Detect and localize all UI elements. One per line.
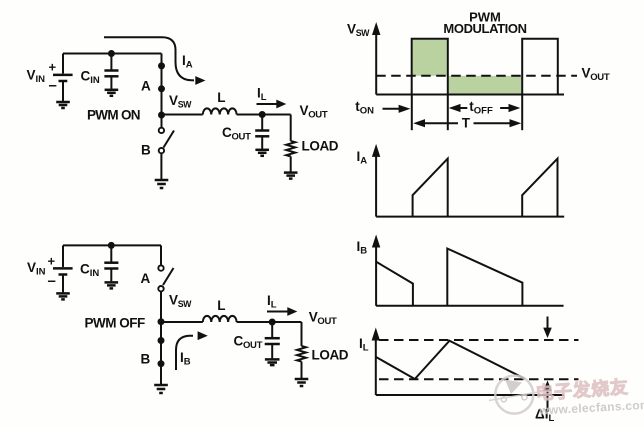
ground below COUT bbox=[255, 150, 269, 156]
svg-text:A: A bbox=[141, 271, 151, 286]
IB segment 1 bbox=[376, 262, 413, 306]
ground below COUT bbox=[265, 359, 280, 365]
arrowhead IL bbox=[287, 307, 297, 316]
svg-text:MODULATION: MODULATION bbox=[443, 21, 526, 36]
node VSW junction dot bbox=[158, 112, 165, 119]
axis IB vertical bbox=[375, 244, 377, 306]
ground below VIN battery bbox=[56, 293, 70, 299]
axis IL vertical bbox=[375, 337, 377, 395]
ground below LOAD bbox=[284, 173, 298, 179]
axis IA vertical bbox=[375, 153, 377, 217]
arrowhead axis IL bbox=[372, 328, 380, 341]
dashed VOUT level line bbox=[376, 75, 577, 77]
green fill tON (above VOUT level) bbox=[413, 40, 447, 76]
ground below switch B bbox=[154, 385, 168, 393]
arrowhead tOFF right bbox=[509, 104, 521, 112]
watermark logo small circle left bbox=[501, 397, 506, 402]
current IA curved arrow bbox=[104, 37, 194, 80]
svg-text:+: + bbox=[49, 60, 57, 75]
switch B open: lower circle bbox=[159, 148, 164, 153]
arrow tOFF right shaft bbox=[500, 107, 509, 109]
svg-text:PWM OFF: PWM OFF bbox=[85, 316, 145, 331]
svg-text:LOAD: LOAD bbox=[312, 348, 349, 363]
svg-text:LOAD: LOAD bbox=[302, 139, 339, 154]
wire LOAD to ground bbox=[290, 156, 292, 171]
switch B open: upper circle bbox=[159, 128, 164, 133]
ground below switch B bbox=[155, 180, 169, 188]
wire VSW to inductor bbox=[162, 114, 203, 116]
axis IL baseline bbox=[376, 394, 564, 396]
wire switch branch vertical bbox=[161, 54, 163, 128]
IL ripple trace bbox=[376, 341, 525, 379]
watermark logo small circle right bbox=[522, 395, 527, 400]
arrow T left shaft bbox=[424, 122, 458, 124]
dashed lower ripple bound bbox=[379, 378, 579, 380]
node VSW junction dot bbox=[158, 318, 165, 325]
wire output corner down to LOAD bbox=[290, 115, 292, 141]
switch A terminal dot lower (closed) bbox=[158, 85, 165, 92]
switch A blade bbox=[163, 268, 174, 285]
resistor LOAD bbox=[286, 141, 295, 157]
ground below VIN battery bbox=[56, 102, 70, 108]
axis VSW vertical bbox=[375, 31, 377, 95]
svg-text:T: T bbox=[462, 116, 471, 131]
arrowhead down bbox=[543, 328, 552, 338]
arrowhead up bbox=[543, 381, 552, 391]
IA sawtooth 2 bbox=[522, 159, 557, 217]
arrowhead tOFF left bbox=[449, 104, 461, 112]
wire inductor to output bbox=[237, 321, 302, 323]
arrow tOFF left shaft bbox=[460, 107, 468, 109]
current IL arrow bbox=[257, 103, 279, 105]
svg-text:+: + bbox=[48, 254, 56, 269]
wire VSW to inductor bbox=[161, 321, 203, 323]
guide line tick 1 bbox=[411, 95, 413, 131]
svg-text:L: L bbox=[217, 90, 225, 105]
inductor L bbox=[203, 108, 237, 114]
green fill tOFF (below VOUT level) bbox=[449, 76, 521, 94]
capacitor COUT bbox=[265, 322, 280, 358]
arrowhead IL bbox=[276, 100, 286, 109]
ground below LOAD bbox=[295, 379, 309, 386]
svg-text:–: – bbox=[48, 273, 56, 290]
svg-text:B: B bbox=[141, 143, 151, 158]
svg-text:–: – bbox=[49, 77, 57, 94]
watermark logo strike line bbox=[489, 392, 541, 401]
axis VSW baseline bbox=[376, 94, 564, 96]
current IB curved arrow bbox=[176, 336, 193, 370]
arrowhead T left bbox=[413, 119, 425, 127]
inductor L bbox=[203, 316, 237, 322]
arrowhead tON bbox=[399, 105, 411, 113]
guide line tick 2 bbox=[447, 95, 449, 131]
arrowhead axis IA bbox=[372, 144, 380, 157]
capacitor CIN bbox=[104, 245, 118, 281]
svg-text:L: L bbox=[217, 298, 225, 313]
node junction dot at CIN tap bbox=[108, 242, 115, 249]
wire top feed bbox=[63, 244, 161, 246]
arrowhead IA bbox=[195, 76, 205, 85]
arrowhead axis IB bbox=[372, 235, 380, 248]
capacitor COUT bbox=[255, 115, 269, 149]
node output junction dot bbox=[269, 319, 276, 326]
svg-text:A: A bbox=[141, 79, 151, 94]
capacitor CIN bbox=[104, 54, 118, 89]
switch B terminal dot upper (closed) bbox=[158, 337, 165, 344]
arrow down to upper bound bbox=[547, 317, 549, 329]
svg-text:B: B bbox=[141, 352, 151, 367]
svg-text:PWM ON: PWM ON bbox=[87, 108, 140, 123]
wire LOAD to ground bbox=[301, 362, 303, 379]
arrowhead T right bbox=[510, 119, 522, 127]
watermark logo wedge bbox=[505, 380, 522, 395]
axis IA baseline bbox=[376, 216, 564, 218]
guide line tick 3 bbox=[521, 95, 523, 131]
wire switch branch down to open switch A bbox=[160, 245, 162, 265]
current IL arrow bbox=[267, 311, 289, 313]
battery VIN bbox=[53, 54, 73, 102]
pulse 1 outline bbox=[412, 39, 448, 95]
pulse 2 outline bbox=[522, 39, 558, 95]
resistor LOAD bbox=[297, 346, 306, 362]
wire top feed (battery to switch node) bbox=[63, 53, 162, 55]
switch A open: upper circle bbox=[158, 265, 163, 270]
ground below CIN bbox=[105, 282, 119, 288]
dashed upper ripple bound bbox=[379, 339, 579, 341]
arrow up to lower bound shaft bbox=[547, 391, 549, 412]
IA sawtooth 1 bbox=[413, 159, 448, 217]
IB segment 2 bbox=[447, 249, 522, 306]
node output junction dot bbox=[259, 111, 266, 118]
arrow T right shaft bbox=[474, 122, 511, 124]
axis IB baseline bbox=[376, 305, 563, 307]
switch B terminal dot lower (closed) bbox=[158, 360, 165, 367]
arrowhead IB bbox=[198, 331, 208, 340]
watermark logo circle bbox=[495, 376, 533, 414]
wire output corner down to LOAD bbox=[301, 322, 303, 346]
arrowhead axis VSW bbox=[372, 22, 380, 35]
wire inductor to output bbox=[237, 114, 291, 116]
ground below CIN bbox=[105, 90, 119, 96]
switch A open: lower circle bbox=[158, 286, 163, 291]
wire B to ground bbox=[160, 154, 162, 179]
battery VIN bbox=[53, 245, 73, 292]
arrow tON bbox=[383, 108, 401, 110]
switch B blade bbox=[164, 131, 175, 148]
node junction dot at CIN tap bbox=[108, 50, 115, 57]
wire switch A to VSW node bbox=[160, 292, 162, 384]
switch A terminal dot upper (closed) bbox=[158, 62, 165, 69]
